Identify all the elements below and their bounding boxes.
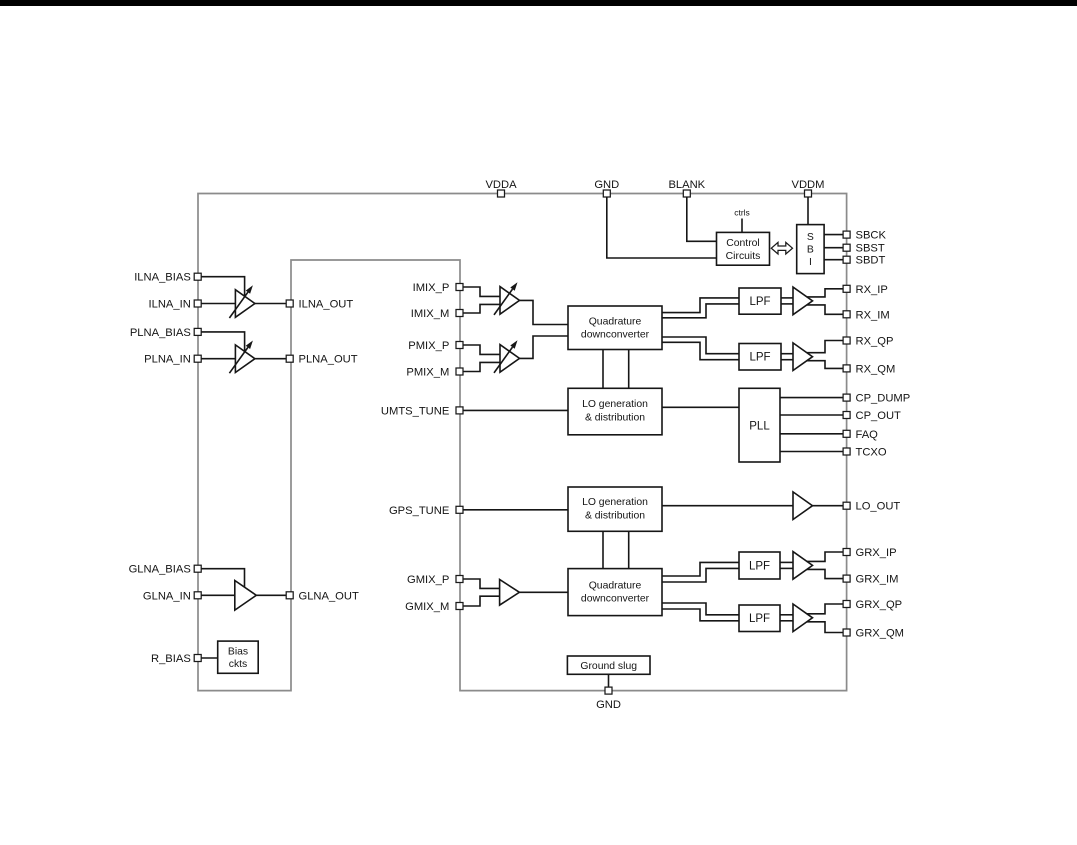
pin ILNA_OUT bbox=[286, 300, 293, 307]
svg-text:GLNA_IN: GLNA_IN bbox=[143, 590, 191, 602]
block Bias ckts bbox=[218, 641, 259, 673]
svg-text:GRX_QM: GRX_QM bbox=[856, 628, 905, 640]
amplifier GRX Q buffer bbox=[793, 604, 813, 632]
svg-text:Quadrature: Quadrature bbox=[589, 580, 642, 591]
svg-text:Control: Control bbox=[726, 238, 760, 249]
wire PLL to CP_DUMP bbox=[780, 397, 843, 399]
wire GPS LO to GPS quad (left) bbox=[602, 531, 604, 568]
pin FAQ bbox=[843, 430, 850, 437]
svg-text:Bias: Bias bbox=[228, 646, 248, 657]
pin GRX_IM bbox=[843, 575, 850, 582]
wire Ground slug to GND pin bbox=[608, 674, 610, 687]
block Quadrature downconverter (UMTS) bbox=[568, 306, 662, 350]
wire quad I- to LPF1 bbox=[662, 304, 739, 318]
block PLL bbox=[739, 388, 780, 462]
wire PLL to TCXO bbox=[780, 451, 843, 453]
amplifier GLNA bbox=[235, 581, 256, 611]
block LPF3 (GPS I channel) bbox=[739, 552, 780, 579]
wire GLNA amp to GLNA_OUT bbox=[256, 594, 286, 596]
pin LO_OUT bbox=[843, 502, 850, 509]
pin VDDA bbox=[498, 190, 505, 197]
wire LPF2 to RX Q buffer bbox=[781, 353, 793, 355]
svg-text:VDDM: VDDM bbox=[792, 179, 825, 191]
svg-text:PLL: PLL bbox=[749, 420, 770, 432]
wire LO generation to PLL bbox=[662, 406, 739, 408]
pin GRX_QM bbox=[843, 629, 850, 636]
svg-text:GRX_IP: GRX_IP bbox=[856, 547, 897, 559]
pin RX_IP bbox=[843, 285, 850, 292]
amplifier LO_OUT buffer bbox=[793, 492, 813, 520]
wire GPS quad I- to LPF3 bbox=[662, 568, 739, 582]
svg-text:Ground slug: Ground slug bbox=[580, 661, 637, 672]
amplifier GRX I buffer bbox=[793, 552, 813, 580]
block Control Circuits bbox=[717, 232, 770, 265]
svg-text:FAQ: FAQ bbox=[856, 429, 879, 441]
svg-text:Circuits: Circuits bbox=[726, 251, 761, 262]
wire GRX Q buffer to GRX_QP / GRX_QM bbox=[807, 604, 844, 614]
wire ILNA_BIAS to ILNA amp bbox=[201, 277, 245, 297]
svg-text:downconverter: downconverter bbox=[581, 593, 650, 604]
wire ILNA amp to ILNA_OUT bbox=[255, 303, 287, 305]
svg-text:VDDA: VDDA bbox=[485, 179, 517, 191]
svg-text:LPF: LPF bbox=[749, 352, 770, 364]
svg-text:CP_OUT: CP_OUT bbox=[856, 410, 902, 422]
block LPF4 (GPS Q channel) bbox=[739, 605, 780, 632]
pin IMIX_M bbox=[456, 310, 463, 317]
wire GPS LO to GPS quad (right) bbox=[628, 531, 630, 568]
svg-text:GRX_IM: GRX_IM bbox=[856, 574, 899, 586]
svg-text:PMIX_M: PMIX_M bbox=[406, 367, 449, 379]
pin IMIX_P bbox=[456, 284, 463, 291]
wire GND to Control Circuits bbox=[607, 197, 717, 258]
pin SBST bbox=[843, 244, 850, 251]
wire IMIX_M to IMIX amp bbox=[463, 304, 500, 313]
amplifier ILNA (variable gain LNA) bbox=[235, 290, 255, 318]
svg-text:LPF: LPF bbox=[749, 613, 770, 625]
wire RX Q buffer to RX_QP / RX_QM bbox=[807, 341, 844, 353]
pin PMIX_P bbox=[456, 342, 463, 349]
svg-text:IMIX_P: IMIX_P bbox=[413, 282, 450, 294]
svg-text:GLNA_OUT: GLNA_OUT bbox=[299, 590, 359, 602]
pin R_BIAS bbox=[194, 655, 201, 662]
svg-text:ILNA_IN: ILNA_IN bbox=[149, 299, 191, 311]
svg-text:SBCK: SBCK bbox=[856, 230, 887, 242]
top black banner bar bbox=[0, 0, 1077, 6]
block LO generation & distribution (UMTS) bbox=[568, 388, 662, 435]
pin GRX_IP bbox=[843, 549, 850, 556]
wire GPS LO generation to LO_OUT buffer bbox=[662, 505, 793, 507]
wire LO_OUT buffer to LO_OUT pin bbox=[813, 505, 844, 507]
wire quad Q- to LPF2 bbox=[662, 342, 739, 359]
amplifier IMIX mixer buffer (variable gain) bbox=[500, 287, 520, 315]
svg-text:& distribution: & distribution bbox=[585, 511, 645, 522]
svg-text:ILNA_BIAS: ILNA_BIAS bbox=[134, 272, 191, 284]
wire quad Q+ to LPF2 bbox=[662, 337, 739, 354]
svg-text:GMIX_M: GMIX_M bbox=[405, 601, 449, 613]
svg-text:UMTS_TUNE: UMTS_TUNE bbox=[381, 405, 449, 417]
amplifier RX Q buffer bbox=[793, 343, 813, 371]
pin GMIX_P bbox=[456, 576, 463, 583]
svg-text:PLNA_BIAS: PLNA_BIAS bbox=[130, 327, 191, 339]
bidirectional bus arrow between Control Circuits and SBI bbox=[771, 242, 792, 254]
wire RX I buffer to RX_IP / RX_IM bbox=[807, 289, 844, 297]
svg-text:GMIX_P: GMIX_P bbox=[407, 574, 449, 586]
svg-text:PLNA_OUT: PLNA_OUT bbox=[299, 354, 358, 366]
svg-text:RX_QP: RX_QP bbox=[856, 336, 894, 348]
block LPF1 (I channel) bbox=[739, 288, 781, 314]
pin GRX_QP bbox=[843, 601, 850, 608]
pin SBDT bbox=[843, 256, 850, 263]
svg-text:GPS_TUNE: GPS_TUNE bbox=[389, 505, 449, 517]
wire GLNA_BIAS to GLNA amp bbox=[201, 569, 245, 588]
pin PLNA_OUT bbox=[286, 355, 293, 362]
pin GLNA_IN bbox=[194, 592, 201, 599]
wire UMTS_TUNE to LO generation bbox=[463, 409, 568, 411]
wire SBI to SBCK bbox=[824, 234, 843, 236]
wire GMIX buffer to GPS quad bbox=[519, 591, 568, 593]
wire PLL to CP_OUT bbox=[780, 414, 843, 416]
pin GMIX_M bbox=[456, 603, 463, 610]
pin ILNA_IN bbox=[194, 300, 201, 307]
wire R_BIAS to Bias ckts bbox=[201, 657, 218, 659]
pin SBCK bbox=[843, 231, 850, 238]
wire PLNA amp to PLNA_OUT bbox=[255, 358, 287, 360]
svg-text:downconverter: downconverter bbox=[581, 330, 650, 341]
wire LPF1 to RX I buffer bbox=[781, 297, 793, 299]
svg-text:SBDT: SBDT bbox=[856, 255, 886, 267]
pin PMIX_M bbox=[456, 368, 463, 375]
svg-text:S: S bbox=[807, 232, 814, 243]
wire SBI to SBST bbox=[824, 247, 843, 249]
wire LPF4 to GRX Q buffer bbox=[780, 614, 793, 616]
wire PMIX_M to PMIX amp bbox=[463, 362, 500, 371]
svg-text:GND: GND bbox=[596, 699, 621, 711]
pin RX_QM bbox=[843, 365, 850, 372]
wire PMIX_P to PMIX amp bbox=[463, 345, 500, 354]
wire ILNA_IN to ILNA amp bbox=[201, 303, 235, 305]
wire IMIX_P to IMIX amp bbox=[463, 287, 500, 296]
wire PMIX amp to Quadrature downconverter bbox=[520, 336, 569, 358]
svg-text:R_BIAS: R_BIAS bbox=[151, 653, 191, 665]
wire ctrls to Control Circuits bbox=[741, 219, 743, 233]
svg-text:LPF: LPF bbox=[749, 560, 770, 572]
pin VDDM bbox=[805, 190, 812, 197]
pin RX_QP bbox=[843, 337, 850, 344]
pin CP_OUT bbox=[843, 412, 850, 419]
svg-text:SBST: SBST bbox=[856, 243, 885, 255]
amplifier PLNA (variable gain LNA) bbox=[235, 345, 255, 373]
block LO generation & distribution (GPS) bbox=[568, 487, 662, 531]
wire GLNA_IN to GLNA amp bbox=[201, 594, 235, 596]
svg-text:BLANK: BLANK bbox=[668, 179, 705, 191]
wire IMIX amp to Quadrature downconverter bbox=[520, 300, 569, 324]
wire GPS_TUNE to GPS LO generation bbox=[463, 509, 568, 511]
pin GND top bbox=[603, 190, 610, 197]
pin ILNA_BIAS bbox=[194, 273, 201, 280]
chip outline (notched boundary) bbox=[198, 194, 847, 691]
svg-text:LO_OUT: LO_OUT bbox=[856, 501, 901, 513]
svg-text:Quadrature: Quadrature bbox=[589, 317, 642, 328]
svg-text:B: B bbox=[807, 245, 814, 256]
wire PLNA_IN to PLNA amp bbox=[201, 358, 235, 360]
block Quadrature downconverter (GPS) bbox=[568, 569, 662, 616]
block Ground slug bbox=[567, 656, 650, 674]
svg-text:GND: GND bbox=[594, 179, 619, 191]
svg-text:RX_IM: RX_IM bbox=[856, 309, 890, 321]
wire PLNA_BIAS to PLNA amp bbox=[201, 332, 245, 352]
wire VDDM to SBI bbox=[807, 197, 809, 225]
pin CP_DUMP bbox=[843, 394, 850, 401]
pin GLNA_BIAS bbox=[194, 565, 201, 572]
svg-text:TCXO: TCXO bbox=[856, 447, 887, 459]
wire LPF3 to GRX I buffer bbox=[780, 561, 793, 563]
pin UMTS_TUNE bbox=[456, 407, 463, 414]
wire GMIX_M to GMIX buffer bbox=[463, 596, 500, 606]
wire GRX I buffer to GRX_IP / GRX_IM bbox=[807, 552, 844, 561]
wire BLANK to Control Circuits bbox=[687, 197, 717, 242]
svg-text:LO generation: LO generation bbox=[582, 497, 648, 508]
wire GMIX_P to GMIX buffer bbox=[463, 579, 500, 588]
amplifier RX I buffer bbox=[793, 287, 813, 315]
wire quad I+ to LPF1 bbox=[662, 298, 739, 313]
svg-text:ckts: ckts bbox=[229, 659, 247, 670]
pin GPS_TUNE bbox=[456, 506, 463, 513]
wire GPS quad I+ to LPF3 bbox=[662, 562, 739, 576]
pin PLNA_IN bbox=[194, 355, 201, 362]
svg-text:GRX_QP: GRX_QP bbox=[856, 599, 903, 611]
svg-text:RX_QM: RX_QM bbox=[856, 363, 896, 375]
svg-text:I: I bbox=[809, 257, 812, 268]
pin GND bottom bbox=[605, 687, 612, 694]
svg-text:& distribution: & distribution bbox=[585, 413, 645, 424]
svg-text:LPF: LPF bbox=[749, 296, 770, 308]
svg-text:IMIX_M: IMIX_M bbox=[411, 308, 450, 320]
svg-text:ctrls: ctrls bbox=[734, 208, 750, 218]
block LPF2 (Q channel) bbox=[739, 344, 781, 371]
svg-text:PLNA_IN: PLNA_IN bbox=[144, 354, 191, 366]
amplifier PMIX mixer buffer (variable gain) bbox=[500, 345, 520, 373]
pin BLANK bbox=[683, 190, 690, 197]
wire PLL to FAQ bbox=[780, 433, 843, 435]
amplifier GMIX input buffer bbox=[500, 580, 520, 606]
svg-text:ILNA_OUT: ILNA_OUT bbox=[299, 299, 354, 311]
wire quad to LO generation (right) bbox=[628, 350, 630, 389]
wire GPS quad Q+ to LPF4 bbox=[662, 603, 739, 615]
block SBI (serial bus interface) bbox=[797, 225, 824, 274]
svg-text:GLNA_BIAS: GLNA_BIAS bbox=[129, 564, 191, 576]
wire GPS quad Q- to LPF4 bbox=[662, 609, 739, 621]
svg-text:PMIX_P: PMIX_P bbox=[408, 340, 449, 352]
svg-text:LO generation: LO generation bbox=[582, 399, 648, 410]
pin TCXO bbox=[843, 448, 850, 455]
svg-text:RX_IP: RX_IP bbox=[856, 284, 888, 296]
wire quad to LO generation (left) bbox=[602, 350, 604, 389]
pin GLNA_OUT bbox=[286, 592, 293, 599]
wire SBI to SBDT bbox=[824, 259, 843, 261]
pin RX_IM bbox=[843, 311, 850, 318]
svg-text:CP_DUMP: CP_DUMP bbox=[856, 393, 911, 405]
pin PLNA_BIAS bbox=[194, 328, 201, 335]
